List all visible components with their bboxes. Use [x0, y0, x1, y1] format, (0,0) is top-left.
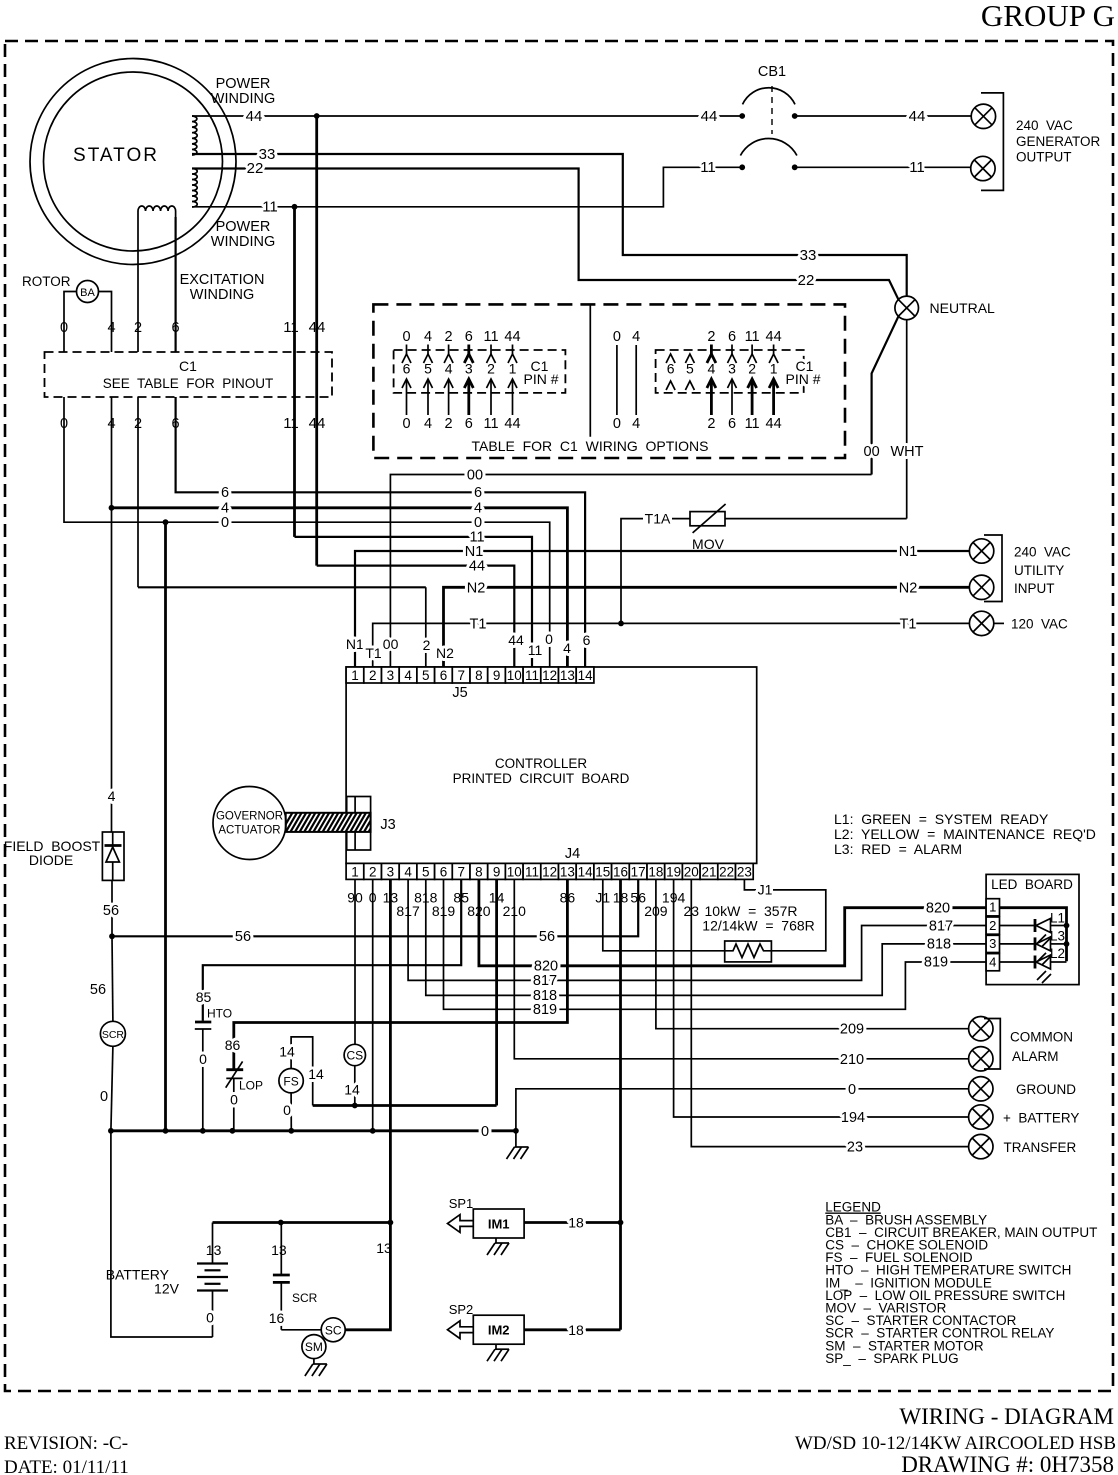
wire 33 stator to neutral: [192, 154, 907, 296]
governor actuator shaft hatched: [280, 810, 395, 834]
wire SCR to SM SC: [281, 1329, 321, 1331]
wire 819 J4 pin6 to LED board pin4: [444, 879, 987, 1009]
svg-text:4: 4: [632, 416, 640, 432]
svg-text:1: 1: [989, 900, 996, 915]
svg-text:17: 17: [631, 864, 646, 879]
power winding coil bottom: [192, 169, 197, 208]
wire 6 from C1 to J5 pin 14: [176, 397, 585, 667]
svg-text:0: 0: [206, 1310, 214, 1326]
svg-text:20: 20: [684, 864, 699, 879]
lamp common alarm 209: [969, 1016, 993, 1040]
lamp ground: [969, 1077, 993, 1101]
svg-text:56: 56: [90, 982, 106, 998]
svg-text:2: 2: [445, 416, 453, 432]
svg-text:16: 16: [269, 1310, 285, 1326]
wire 11 to J5 pin 11: [295, 537, 533, 667]
node CS 14 junction: [352, 1103, 358, 1109]
svg-text:2: 2: [989, 918, 996, 933]
svg-text:SP1: SP1: [449, 1196, 474, 1211]
lamp utility N1: [969, 539, 993, 563]
svg-text:WINDING: WINDING: [211, 91, 275, 107]
svg-text:44: 44: [309, 415, 326, 432]
svg-text:44: 44: [766, 329, 782, 345]
SM ground: [313, 1359, 315, 1364]
svg-text:120 VAC: 120 VAC: [1011, 617, 1068, 632]
wire BA right to C1 pin 4: [99, 292, 112, 353]
svg-text:85: 85: [196, 989, 212, 1005]
svg-text:13: 13: [560, 668, 575, 683]
svg-text:T1A: T1A: [645, 511, 671, 527]
wire 11 stator to CB1: [192, 167, 742, 207]
svg-text:CB1: CB1: [758, 64, 786, 80]
svg-text:WINDING: WINDING: [211, 234, 275, 250]
svg-text:6: 6: [583, 632, 591, 648]
svg-text:7: 7: [457, 864, 465, 879]
wire battery return to bus: [111, 1131, 213, 1337]
svg-text:STATOR: STATOR: [73, 145, 159, 166]
svg-text:819: 819: [533, 1002, 557, 1018]
wire 209 J4 pin18 to common alarm lamp: [656, 879, 970, 1028]
svg-text:GOVERNOR: GOVERNOR: [216, 811, 283, 823]
svg-text:3: 3: [728, 361, 736, 377]
svg-text:T1: T1: [365, 645, 382, 661]
svg-text:LED BOARD: LED BOARD: [991, 877, 1073, 892]
svg-text:0: 0: [402, 329, 410, 345]
lamp terminal 240VAC output 44: [971, 104, 995, 128]
svg-text:11: 11: [528, 642, 543, 658]
chassis ground at bus: [515, 1131, 517, 1147]
LED L3: [1000, 943, 1036, 945]
wire 44 CB1 to output lamp: [795, 115, 972, 117]
svg-text:6: 6: [667, 361, 675, 377]
svg-text:SCR: SCR: [292, 1291, 318, 1305]
svg-text:4: 4: [563, 640, 571, 656]
svg-text:DIODE: DIODE: [29, 852, 73, 868]
wire 23 J4 pin20 to transfer lamp: [691, 879, 969, 1146]
wire 4 from C1 to J5 pin 13: [111, 397, 113, 508]
node 13 junctions: [278, 1220, 284, 1226]
lamp terminal 240VAC output 11: [971, 156, 995, 180]
svg-text:7: 7: [457, 668, 465, 683]
svg-text:2: 2: [423, 637, 431, 653]
svg-text:TRANSFER: TRANSFER: [1004, 1140, 1077, 1155]
svg-text:0: 0: [60, 320, 68, 336]
svg-text:COMMON: COMMON: [1010, 1030, 1073, 1045]
svg-text:FS: FS: [283, 1075, 298, 1089]
lamp transfer: [969, 1134, 993, 1158]
svg-text:11: 11: [483, 329, 498, 345]
svg-text:+ BATTERY: + BATTERY: [1003, 1111, 1079, 1126]
svg-text:21: 21: [701, 864, 716, 879]
svg-text:12V: 12V: [154, 1281, 180, 1297]
svg-text:14: 14: [344, 1082, 360, 1098]
wire FS to bus: [290, 1093, 292, 1131]
wire diode to 56 node: [111, 880, 113, 936]
svg-text:5: 5: [424, 361, 432, 377]
wire J1 jumper J4 pin23 to resistor: [744, 879, 756, 890]
svg-text:44: 44: [504, 416, 520, 432]
svg-text:5: 5: [422, 864, 430, 879]
starter control relay contact SCR: [280, 1223, 282, 1276]
svg-text:12: 12: [542, 668, 557, 683]
svg-text:J3: J3: [380, 817, 395, 833]
svg-text:L3: L3: [1050, 929, 1065, 944]
svg-text:11: 11: [700, 159, 716, 176]
svg-text:EXCITATION: EXCITATION: [180, 272, 265, 288]
svg-text:CS: CS: [346, 1049, 363, 1063]
svg-text:0: 0: [848, 1082, 856, 1098]
svg-text:6: 6: [465, 416, 473, 432]
svg-text:WHT: WHT: [890, 444, 923, 460]
svg-text:4: 4: [632, 329, 640, 345]
svg-text:11: 11: [525, 668, 539, 683]
svg-text:3: 3: [387, 864, 395, 879]
ignition module IM2 box: [473, 1315, 524, 1344]
svg-text:OUTPUT: OUTPUT: [1016, 150, 1072, 165]
fuel solenoid FS: [279, 1069, 303, 1093]
svg-text:4: 4: [108, 788, 116, 804]
wire 0 branch down: [164, 522, 167, 1131]
svg-text:10: 10: [507, 668, 522, 683]
svg-text:18: 18: [648, 864, 663, 879]
svg-text:44: 44: [309, 319, 326, 336]
svg-text:L1: GREEN = SYSTEM READY: L1: GREEN = SYSTEM READY: [834, 811, 1049, 827]
wire FS top loop to 14 line: [291, 1037, 313, 1106]
svg-text:L1: L1: [1050, 911, 1065, 926]
svg-text:23: 23: [737, 864, 752, 879]
resistor 10kW=357R 12/14kW=768R: [725, 941, 772, 962]
svg-text:WIRING - DIAGRAM: WIRING - DIAGRAM: [899, 1404, 1114, 1429]
svg-text:0: 0: [221, 515, 229, 531]
svg-text:9: 9: [493, 668, 501, 683]
svg-text:18: 18: [568, 1215, 584, 1231]
wire 820 J4 pin8 to LED board pin1: [479, 879, 1067, 965]
SP2 spark plug arrow: [448, 1321, 474, 1339]
wire T1 from J5 pin 2 to utility lamp: [373, 623, 970, 667]
brush assembly BA: [77, 281, 99, 303]
svg-text:PRINTED CIRCUIT BOARD: PRINTED CIRCUIT BOARD: [453, 771, 630, 786]
lamp utility T1: [969, 611, 993, 635]
svg-text:14: 14: [578, 668, 594, 683]
node junction 44: [314, 113, 320, 119]
svg-text:GENERATOR: GENERATOR: [1016, 134, 1101, 149]
svg-text:00: 00: [864, 444, 880, 460]
field boost diode box: [102, 832, 124, 880]
node junction 11: [292, 204, 298, 210]
svg-text:44: 44: [909, 108, 926, 125]
svg-text:L2: YELLOW = MAINTENANCE R: L2: YELLOW = MAINTENANCE REQ'D: [834, 826, 1096, 842]
neutral lamp: [895, 296, 919, 320]
field boost diode symbol: [105, 844, 122, 847]
svg-text:SCR: SCR: [102, 1029, 125, 1041]
svg-text:3: 3: [989, 936, 996, 951]
svg-text:IM2: IM2: [488, 1323, 510, 1338]
svg-text:11: 11: [909, 159, 925, 176]
svg-text:0: 0: [481, 1124, 489, 1140]
starter control relay coil SCR: [100, 1021, 125, 1046]
svg-text:86: 86: [225, 1037, 241, 1053]
LED board pin boxes: [986, 899, 999, 971]
svg-text:T1: T1: [900, 616, 917, 632]
svg-text:INPUT: INPUT: [1014, 581, 1055, 596]
lamp plus battery: [969, 1105, 993, 1129]
wire CS to 14 line: [354, 1066, 356, 1106]
node 4 junction: [109, 505, 115, 511]
wire 817 J4 pin4 to LED board pin2: [408, 879, 986, 980]
circuit breaker CB1: [740, 86, 797, 156]
connector C1 box: [45, 352, 333, 397]
power winding coil top: [192, 116, 197, 155]
svg-text:9: 9: [493, 864, 501, 879]
lamp common alarm 210: [969, 1047, 993, 1071]
svg-text:12: 12: [542, 864, 557, 879]
svg-text:DRAWING #: 0H7358: DRAWING #: 0H7358: [901, 1452, 1114, 1475]
connector J3: [347, 797, 371, 851]
svg-text:820: 820: [926, 900, 950, 916]
svg-text:HTO: HTO: [207, 1007, 232, 1021]
svg-text:0: 0: [283, 1102, 291, 1118]
wire 13 to SC: [345, 1223, 390, 1330]
svg-text:0: 0: [613, 329, 621, 345]
wire 2 excitation to C1: [137, 217, 139, 352]
svg-text:11: 11: [745, 329, 760, 345]
svg-text:PIN #: PIN #: [523, 371, 558, 387]
wire 00 from J5 pin 3 to neutral: [390, 475, 871, 668]
svg-text:N1: N1: [346, 636, 364, 652]
svg-text:11: 11: [283, 415, 299, 432]
svg-text:SP_ – SPARK PLUG: SP_ – SPARK PLUG: [825, 1351, 958, 1366]
svg-text:SC: SC: [325, 1323, 342, 1337]
svg-text:13: 13: [206, 1242, 222, 1258]
svg-text:NEUTRAL: NEUTRAL: [930, 300, 996, 316]
svg-text:6: 6: [728, 416, 736, 432]
svg-text:6: 6: [440, 668, 448, 683]
wire 44 riser through C1: [315, 116, 318, 566]
svg-text:00: 00: [383, 636, 399, 652]
svg-text:4: 4: [424, 416, 432, 432]
wire 56 J4 pin17 to field boost: [112, 879, 638, 936]
starter motor SM: [302, 1335, 326, 1359]
wire 4 to field boost diode: [111, 508, 113, 832]
svg-text:13: 13: [560, 864, 575, 879]
wire 44 to J5 pin 10: [317, 566, 515, 667]
excitation winding coil: [138, 206, 176, 211]
svg-text:00: 00: [467, 468, 483, 484]
wire 194 J4 pin19 to battery lamp: [674, 879, 970, 1117]
LED chain junction dots: [1064, 923, 1070, 929]
svg-text:0: 0: [230, 1092, 238, 1108]
wire T1A riser: [621, 519, 643, 624]
svg-text:0: 0: [100, 1089, 108, 1105]
svg-text:44: 44: [508, 632, 524, 648]
wire 2 from C1 to J5 pin 5: [137, 397, 139, 587]
wire 18 IM1: [524, 1221, 620, 1224]
svg-text:T1: T1: [470, 617, 487, 633]
choke solenoid CS: [344, 1044, 365, 1065]
svg-text:J1: J1: [758, 882, 773, 898]
node 18 junction: [618, 1220, 624, 1226]
svg-text:0: 0: [613, 416, 621, 432]
svg-text:2: 2: [707, 416, 715, 432]
svg-text:1: 1: [351, 668, 359, 683]
svg-text:240 VAC: 240 VAC: [1016, 118, 1073, 133]
wire MOV to neutral WHT: [725, 518, 907, 520]
svg-text:L3: RED = ALARM: L3: RED = ALARM: [834, 841, 962, 857]
svg-text:5: 5: [422, 668, 430, 683]
governor actuator circle: [213, 787, 286, 860]
wire 14 J4 pin9 down: [495, 879, 498, 1105]
svg-text:0: 0: [402, 416, 410, 432]
controller printed circuit board outline: [346, 667, 757, 863]
IM2 ground: [495, 1344, 497, 1349]
lamp utility N2: [969, 575, 993, 599]
bus junction dots: [108, 1128, 114, 1134]
svg-text:16: 16: [613, 864, 628, 879]
svg-text:UTILITY: UTILITY: [1014, 563, 1064, 578]
svg-text:4: 4: [404, 668, 412, 683]
svg-text:N2: N2: [467, 581, 486, 597]
svg-text:44: 44: [701, 108, 718, 125]
wire 11 CB1 to output lamp: [795, 166, 971, 168]
node 56 junction: [109, 933, 115, 939]
svg-text:15: 15: [595, 864, 610, 879]
svg-text:6: 6: [465, 329, 473, 345]
wire 18 J4 pin16 down: [619, 879, 622, 1329]
svg-text:6: 6: [728, 329, 736, 345]
wire 13 J4 pin3 down: [389, 879, 392, 1222]
svg-text:N2: N2: [436, 645, 454, 661]
wire 22 stator to neutral: [192, 169, 899, 300]
svg-text:N2: N2: [899, 580, 918, 596]
svg-text:819: 819: [924, 954, 948, 970]
svg-text:56: 56: [235, 929, 251, 945]
svg-text:818: 818: [927, 937, 951, 953]
wire 6 excitation to C1: [175, 217, 177, 352]
svg-text:44: 44: [504, 329, 520, 345]
svg-text:DATE: 01/11/11: DATE: 01/11/11: [4, 1457, 129, 1475]
svg-text:1: 1: [509, 361, 517, 377]
svg-text:6: 6: [221, 485, 229, 501]
svg-text:817: 817: [929, 918, 953, 934]
svg-text:11: 11: [525, 864, 539, 879]
table left C1 pin box: [394, 350, 566, 393]
wire BA left to C1 pin 0: [64, 292, 77, 353]
svg-text:ALARM: ALARM: [1012, 1049, 1059, 1064]
svg-text:N1: N1: [899, 544, 918, 560]
svg-text:23: 23: [847, 1140, 863, 1156]
svg-text:817: 817: [533, 973, 557, 989]
wire 56 node to SCR: [111, 936, 114, 1021]
svg-text:240 VAC: 240 VAC: [1014, 545, 1071, 560]
svg-text:4: 4: [404, 864, 412, 879]
bracket 240VAC generator output: [981, 93, 1003, 190]
high temperature switch HTO: [195, 1021, 211, 1024]
wire 18 IM2: [524, 1328, 620, 1331]
wire SCR to bus: [111, 1046, 113, 1131]
connector J5 pin row: [346, 667, 594, 683]
svg-text:GROUP G: GROUP G: [981, 0, 1115, 33]
svg-text:22: 22: [719, 864, 734, 879]
bus 0 horizontal: [111, 1129, 516, 1132]
svg-text:8: 8: [475, 864, 483, 879]
svg-text:3: 3: [387, 668, 395, 683]
wire 86 J4 pin13 to LOP: [234, 879, 568, 1068]
stator inner circle: [44, 72, 223, 251]
svg-text:210: 210: [840, 1052, 864, 1068]
svg-text:11: 11: [283, 319, 299, 336]
LED L2: [1000, 961, 1036, 963]
wire 14 horizontal: [313, 1104, 497, 1107]
svg-text:6: 6: [403, 361, 411, 377]
svg-text:POWER: POWER: [216, 76, 271, 92]
LED board box: [986, 874, 1079, 984]
svg-text:SEE TABLE FOR PINOUT: SEE TABLE FOR PINOUT: [103, 376, 274, 391]
starter contactor SC: [321, 1318, 345, 1342]
wire 90 J4 pin1 to CS: [354, 879, 356, 1044]
svg-text:11: 11: [745, 416, 760, 432]
svg-text:L2: L2: [1050, 946, 1065, 961]
table divider: [589, 304, 591, 436]
svg-text:14: 14: [308, 1066, 324, 1082]
svg-text:2: 2: [707, 329, 715, 345]
svg-text:J4: J4: [565, 846, 580, 862]
svg-text:11: 11: [262, 199, 278, 216]
IM1 ground: [495, 1238, 497, 1243]
wire 44 stator to CB1: [192, 115, 742, 117]
svg-text:13: 13: [376, 1240, 392, 1256]
svg-text:REVISION: -C-: REVISION: -C-: [4, 1433, 128, 1454]
wire 0 from C1 to J5 pin 12: [64, 397, 550, 667]
bracket common alarm: [984, 1019, 1000, 1070]
svg-text:12/14kW = 768R: 12/14kW = 768R: [702, 918, 814, 934]
svg-text:8: 8: [475, 668, 483, 683]
svg-text:10: 10: [507, 864, 522, 879]
wire 818 J4 pin5 to LED board pin3: [426, 879, 986, 995]
bracket 240VAC utility input: [984, 535, 1002, 602]
table for C1 wiring options box: [373, 304, 845, 458]
svg-text:WD/SD 10-12/14KW AIRCOOLED HSB: WD/SD 10-12/14KW AIRCOOLED HSB: [795, 1433, 1116, 1454]
svg-text:C1: C1: [179, 358, 197, 374]
svg-text:4: 4: [424, 329, 432, 345]
svg-text:ACTUATOR: ACTUATOR: [218, 825, 280, 837]
svg-text:0: 0: [545, 631, 553, 647]
SP1 spark plug arrow: [448, 1215, 474, 1233]
svg-text:WINDING: WINDING: [190, 287, 254, 303]
LED L1: [1000, 925, 1036, 927]
svg-text:14: 14: [279, 1044, 295, 1060]
svg-text:LOP: LOP: [239, 1079, 263, 1093]
svg-text:2: 2: [445, 329, 453, 345]
svg-text:1: 1: [351, 864, 359, 879]
svg-text:SM: SM: [305, 1340, 323, 1354]
svg-text:BA: BA: [80, 287, 95, 299]
svg-text:MOV: MOV: [692, 536, 725, 552]
svg-text:4: 4: [989, 954, 996, 969]
table right C1 pin box: [656, 350, 804, 393]
dash and label 120 VAC: [994, 622, 1004, 624]
svg-text:2: 2: [748, 361, 756, 377]
svg-text:PIN #: PIN #: [785, 371, 820, 387]
svg-text:11: 11: [483, 416, 498, 432]
svg-text:22: 22: [247, 160, 264, 177]
svg-text:209: 209: [840, 1022, 864, 1038]
wire 11 riser through C1: [293, 207, 296, 537]
svg-text:GROUND: GROUND: [1016, 1082, 1076, 1097]
wire J1 J4 pin15 to resistor: [603, 879, 725, 950]
svg-text:ROTOR: ROTOR: [22, 274, 71, 289]
svg-text:14: 14: [578, 864, 594, 879]
svg-text:TABLE FOR C1 WIRING OPTION: TABLE FOR C1 WIRING OPTIONS: [472, 438, 709, 454]
